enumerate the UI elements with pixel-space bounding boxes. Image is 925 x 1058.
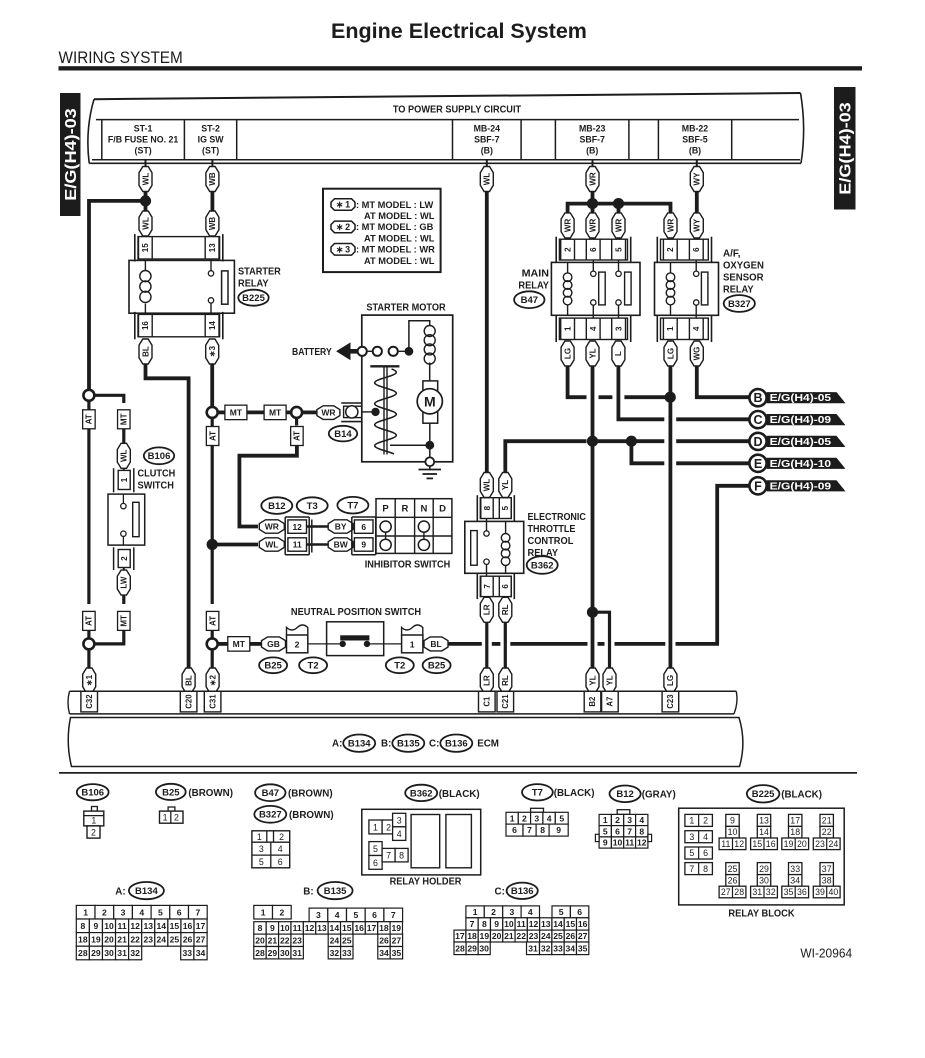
svg-text:11: 11 xyxy=(517,919,526,929)
wire label YL (bus A7) xyxy=(603,668,616,693)
svg-text:WL: WL xyxy=(265,540,278,550)
svg-text:B: B xyxy=(753,391,762,405)
svg-text:7: 7 xyxy=(527,825,532,835)
starter motor field coil xyxy=(424,326,435,337)
inhibitor pin 6 xyxy=(354,520,373,533)
wire label RL (ETC pin6) xyxy=(499,597,512,622)
row B segments with crossing breaks xyxy=(599,395,613,399)
wire label WG (B327 pin4) xyxy=(690,341,703,366)
starter motor armature xyxy=(423,381,438,423)
svg-text:3: 3 xyxy=(614,326,623,331)
svg-text:2: 2 xyxy=(102,907,107,917)
B25 connector icon xyxy=(168,807,175,811)
model label MT box 1 xyxy=(218,410,227,414)
svg-text:23: 23 xyxy=(815,839,825,849)
svg-text:LR: LR xyxy=(483,604,492,615)
grid A B134 xyxy=(76,905,95,919)
wire WY from MB-22 xyxy=(696,160,698,167)
clutch switch pin 1 xyxy=(118,470,130,489)
svg-text:4: 4 xyxy=(703,832,708,842)
svg-text:C20: C20 xyxy=(184,694,193,709)
model label MT (clutch upper) xyxy=(118,410,131,429)
wire AT2 to inhibitor WR pin 12 xyxy=(239,446,297,527)
svg-text:19: 19 xyxy=(392,923,402,933)
svg-text:14: 14 xyxy=(553,919,563,929)
relay holder box xyxy=(362,809,481,875)
svg-text:16: 16 xyxy=(766,839,776,849)
battery arrow xyxy=(336,342,350,360)
connector ref B106 (bottom) xyxy=(77,784,109,800)
neutral switch contacts xyxy=(340,641,346,647)
svg-text:SBF-7: SBF-7 xyxy=(579,135,605,145)
starter relay bottom pin band pins 16 14 xyxy=(138,314,220,336)
svg-text:(BLACK): (BLACK) xyxy=(781,790,822,801)
relay block box xyxy=(679,808,845,905)
connector ref B362 (bottom) xyxy=(405,785,437,801)
svg-text:: MT MODEL : LW: : MT MODEL : LW xyxy=(356,200,434,210)
svg-text:27: 27 xyxy=(392,935,402,945)
svg-text:1: 1 xyxy=(689,816,694,826)
wire LG B327 down to ECM C23 xyxy=(669,366,673,670)
svg-text:12: 12 xyxy=(305,923,315,933)
svg-text:30: 30 xyxy=(104,948,114,958)
svg-text:12: 12 xyxy=(734,839,744,849)
svg-text:TO POWER SUPPLY CIRCUIT: TO POWER SUPPLY CIRCUIT xyxy=(393,105,521,116)
svg-text:B225: B225 xyxy=(752,789,775,800)
svg-text:STARTER: STARTER xyxy=(238,267,282,278)
svg-text:6: 6 xyxy=(615,826,620,836)
svg-text:17: 17 xyxy=(455,931,465,941)
svg-text:20: 20 xyxy=(104,934,114,944)
wire clutch lower to junction xyxy=(94,630,124,644)
wire label *1 xyxy=(83,668,96,693)
wire MT to GB xyxy=(250,642,262,646)
svg-text:5: 5 xyxy=(559,813,564,823)
starter relay contact xyxy=(210,259,212,271)
svg-text:20: 20 xyxy=(255,935,265,945)
svg-text:E/G(H4)-03: E/G(H4)-03 xyxy=(63,108,80,201)
svg-text:(B): (B) xyxy=(689,146,701,156)
wire RL down to C21 xyxy=(504,622,507,670)
main relay top pin band pins 2 6 5 xyxy=(559,239,627,260)
svg-text:(BROWN): (BROWN) xyxy=(188,788,233,799)
relay holder cells 5-8 xyxy=(369,842,382,856)
svg-text:2: 2 xyxy=(703,816,708,826)
right page banner E/G(H4)-03 xyxy=(834,87,856,210)
svg-text:33: 33 xyxy=(342,948,352,958)
wire BL from starter relay to ECM C20 xyxy=(146,364,189,670)
svg-text:6: 6 xyxy=(373,858,378,868)
ground symbol xyxy=(429,466,431,469)
svg-text:14: 14 xyxy=(330,923,340,933)
svg-text:6: 6 xyxy=(177,907,182,917)
svg-text:SBF-5: SBF-5 xyxy=(682,135,708,145)
svg-text:L: L xyxy=(614,351,623,356)
wire label WR (B47 pin6) xyxy=(586,213,599,238)
svg-text:7: 7 xyxy=(483,584,492,589)
junction circle AT/MT upper (clutch branch) xyxy=(83,390,94,401)
svg-text:C31: C31 xyxy=(208,694,217,709)
connector ref B225 (bottom) xyxy=(747,785,780,802)
svg-text:MB-23: MB-23 xyxy=(579,124,606,134)
connector refs B25 T2 (left) xyxy=(259,657,287,673)
ECM pin boxes xyxy=(81,691,98,712)
svg-text:6: 6 xyxy=(577,907,582,917)
svg-text:B47: B47 xyxy=(521,295,538,306)
svg-text:6: 6 xyxy=(278,857,283,867)
svg-text:26: 26 xyxy=(379,935,389,945)
svg-text:4: 4 xyxy=(639,815,644,825)
svg-text:MT: MT xyxy=(120,413,129,425)
svg-text:5: 5 xyxy=(373,844,378,854)
wire WL from MB-24 down to ETC relay xyxy=(486,160,488,167)
svg-text:LR: LR xyxy=(483,675,492,686)
svg-text:1: 1 xyxy=(83,907,88,917)
svg-text:11: 11 xyxy=(118,921,127,931)
svg-text:31: 31 xyxy=(292,948,302,958)
svg-text:WY: WY xyxy=(693,172,702,186)
svg-text:LW: LW xyxy=(120,576,129,588)
svg-text:AT MODEL : WL: AT MODEL : WL xyxy=(364,256,435,266)
svg-text:LG: LG xyxy=(666,675,675,686)
junction dot YL branch xyxy=(587,607,598,618)
svg-text:B12: B12 xyxy=(268,501,285,512)
svg-text:9: 9 xyxy=(361,540,366,550)
svg-text:32: 32 xyxy=(541,943,551,953)
wire label WL (ETC pin8) xyxy=(480,473,493,498)
wire WB from ST-2 to starter relay pin 13 xyxy=(211,160,213,167)
svg-text:M: M xyxy=(424,393,436,409)
relay holder slots xyxy=(411,815,440,868)
model label MT box 2 xyxy=(247,410,265,414)
svg-text:9: 9 xyxy=(730,816,735,826)
A/F relay top pin band pins 2 6 xyxy=(661,239,709,260)
main relay contact 2 xyxy=(618,260,620,271)
svg-text:8: 8 xyxy=(540,825,545,835)
arrow E E/G(H4)-10 xyxy=(767,458,846,469)
junction dot row B at LG B327 xyxy=(665,392,676,403)
svg-text:N: N xyxy=(420,504,427,515)
svg-text:D: D xyxy=(439,504,446,515)
svg-text:29: 29 xyxy=(268,948,278,958)
connector ref B362 xyxy=(527,556,558,574)
svg-text:1: 1 xyxy=(666,326,675,331)
svg-text:8: 8 xyxy=(483,505,492,510)
svg-text:WI-20964: WI-20964 xyxy=(800,947,852,961)
svg-text:C32: C32 xyxy=(85,694,94,709)
svg-text:WL: WL xyxy=(141,217,150,230)
wire label RL (bus) xyxy=(499,668,512,693)
wire label LR (ETC pin7) xyxy=(480,597,493,622)
wire branch from WL junction to clutch switch circuit xyxy=(89,201,146,391)
starter relay B225 body xyxy=(129,260,234,313)
svg-text:WR: WR xyxy=(321,408,335,418)
svg-text:: MT MODEL : WR: : MT MODEL : WR xyxy=(356,245,435,255)
svg-text:A:: A: xyxy=(115,886,125,897)
wire LR down to C1 xyxy=(485,622,488,670)
main relay coil xyxy=(567,262,569,273)
starter motor box xyxy=(362,315,453,462)
svg-text:(B): (B) xyxy=(481,146,493,156)
connector ref B106 xyxy=(144,447,174,464)
svg-text:35: 35 xyxy=(784,887,794,897)
wire label WR (B47 pin5) xyxy=(612,213,625,238)
svg-text:B25: B25 xyxy=(162,787,180,798)
svg-text:RELAY: RELAY xyxy=(238,279,269,290)
svg-text:RELAY HOLDER: RELAY HOLDER xyxy=(390,877,462,888)
note *2 symbol xyxy=(331,221,355,233)
svg-text:∗ 2: ∗ 2 xyxy=(336,222,350,232)
starter motor bottom node xyxy=(429,423,431,457)
svg-text:RL: RL xyxy=(501,675,510,686)
svg-text:B135: B135 xyxy=(324,886,347,897)
note *1 symbol xyxy=(331,199,355,211)
svg-text:(ST): (ST) xyxy=(135,146,152,156)
wire label WR pin 12 xyxy=(259,520,284,533)
svg-text:27: 27 xyxy=(578,931,588,941)
svg-text:21: 21 xyxy=(504,931,514,941)
svg-text:3: 3 xyxy=(121,907,126,917)
svg-text:T7: T7 xyxy=(347,501,358,512)
svg-text:2: 2 xyxy=(295,640,300,650)
svg-text:B362: B362 xyxy=(410,788,433,799)
svg-text:B136: B136 xyxy=(445,739,468,750)
wire label WR (B14) xyxy=(317,406,340,420)
svg-text:∗3: ∗3 xyxy=(208,345,217,357)
inhibitor pin frame right xyxy=(351,517,353,555)
svg-text:13: 13 xyxy=(208,243,217,252)
wire label LR (bus) xyxy=(480,668,493,693)
clutch switch pin 2 xyxy=(118,550,130,568)
clutch switch body B106 xyxy=(108,494,145,545)
wire label L (B47 pin3) xyxy=(612,341,625,366)
svg-text:8: 8 xyxy=(482,919,487,929)
relay holder cells 1-4 xyxy=(369,820,382,834)
svg-text:IG SW: IG SW xyxy=(198,135,225,145)
svg-text:29: 29 xyxy=(91,948,101,958)
svg-text:6: 6 xyxy=(372,910,377,920)
wire label BY pin 6 xyxy=(328,520,353,533)
svg-text:22: 22 xyxy=(280,935,290,945)
starter relay coil xyxy=(144,260,146,270)
junction circle MT row left xyxy=(207,407,218,418)
svg-text:ECM: ECM xyxy=(477,739,499,750)
svg-text:10: 10 xyxy=(728,827,738,837)
inhibitor PRND table xyxy=(376,499,452,554)
svg-text:3: 3 xyxy=(627,815,632,825)
wire BL to F arrow (with breaks at crossings) xyxy=(448,642,482,646)
YL branch to A7 xyxy=(593,612,610,670)
svg-text:5: 5 xyxy=(603,826,608,836)
svg-text:32: 32 xyxy=(330,948,340,958)
svg-text:MT: MT xyxy=(269,407,282,417)
svg-text:4: 4 xyxy=(278,844,283,854)
svg-text:BL: BL xyxy=(141,346,150,357)
svg-text:20: 20 xyxy=(492,931,502,941)
wire YL B47 down xyxy=(591,366,595,670)
svg-text:AT: AT xyxy=(208,616,217,626)
svg-text:∗1: ∗1 xyxy=(85,674,94,686)
svg-text:E/G(H4)-10: E/G(H4)-10 xyxy=(770,459,832,470)
svg-text:13: 13 xyxy=(759,816,769,826)
svg-text:B135: B135 xyxy=(397,739,420,750)
svg-text:24: 24 xyxy=(330,935,340,945)
model label AT (left upper) xyxy=(83,410,96,429)
svg-text:B25: B25 xyxy=(428,661,446,672)
wire YL ETC pin5 up to row D xyxy=(505,441,586,472)
A/F relay bottom pin band pins 1 4 xyxy=(661,318,709,339)
svg-text:B327: B327 xyxy=(259,810,282,821)
svg-text:NEUTRAL POSITION SWITCH: NEUTRAL POSITION SWITCH xyxy=(291,607,421,618)
svg-text:15: 15 xyxy=(342,923,352,933)
svg-text:8: 8 xyxy=(399,851,404,861)
connector ref B47 xyxy=(514,291,544,308)
svg-text:STARTER MOTOR: STARTER MOTOR xyxy=(366,302,446,313)
svg-text:5: 5 xyxy=(559,907,564,917)
svg-text:AT: AT xyxy=(85,414,94,424)
svg-text:1: 1 xyxy=(373,822,378,832)
svg-text:E/G(H4)-09: E/G(H4)-09 xyxy=(770,481,832,492)
svg-text:1: 1 xyxy=(510,813,515,823)
svg-text:B106: B106 xyxy=(81,788,104,799)
model label AT (lower) xyxy=(206,611,219,630)
grid C B136 xyxy=(466,906,484,918)
svg-text:26: 26 xyxy=(728,875,738,885)
wire label LG (B47 pin1) xyxy=(561,341,574,366)
svg-text:5: 5 xyxy=(614,247,623,252)
svg-text:∗2: ∗2 xyxy=(208,674,217,686)
svg-text:(BLACK): (BLACK) xyxy=(439,789,480,800)
svg-text:OXYGEN: OXYGEN xyxy=(723,260,764,271)
branch to arrow E xyxy=(631,441,664,463)
svg-text:24: 24 xyxy=(157,934,167,944)
svg-text:B134: B134 xyxy=(348,739,371,750)
svg-text:2: 2 xyxy=(120,556,129,561)
svg-text:11: 11 xyxy=(293,923,302,933)
svg-text:B:: B: xyxy=(303,886,313,897)
svg-text:16: 16 xyxy=(141,321,150,330)
svg-text:2: 2 xyxy=(491,907,496,917)
svg-text:B362: B362 xyxy=(531,560,554,571)
svg-text:WR: WR xyxy=(666,219,675,233)
A/F relay coil xyxy=(670,262,672,273)
svg-text:4: 4 xyxy=(547,813,552,823)
svg-text:34: 34 xyxy=(790,875,800,885)
wire label *2 xyxy=(206,668,219,693)
wire to *2 xyxy=(211,649,214,671)
svg-text:C23: C23 xyxy=(666,694,675,709)
main relay body B47 xyxy=(551,262,640,315)
svg-text:28: 28 xyxy=(734,887,744,897)
wire MT junction down (AT path) xyxy=(211,418,214,604)
arrow B E/G(H4)-05 xyxy=(767,392,846,403)
wire label WY (B327 pin6) xyxy=(690,213,703,238)
svg-text:RL: RL xyxy=(501,604,510,615)
battery contact circles xyxy=(358,347,367,356)
svg-text:∗ 1: ∗ 1 xyxy=(336,200,350,210)
svg-text:THROTTLE: THROTTLE xyxy=(528,524,576,535)
svg-text:AT MODEL : WL: AT MODEL : WL xyxy=(364,211,435,221)
neutral switch pin 2 with breakoff xyxy=(287,625,308,636)
svg-text:9: 9 xyxy=(603,838,608,848)
svg-text:32: 32 xyxy=(130,948,140,958)
svg-text:16: 16 xyxy=(183,921,193,931)
svg-text:27: 27 xyxy=(196,934,206,944)
svg-text:8: 8 xyxy=(639,826,644,836)
svg-text:MT: MT xyxy=(120,615,129,627)
svg-text:3: 3 xyxy=(689,832,694,842)
svg-text:8: 8 xyxy=(703,864,708,874)
svg-text:7: 7 xyxy=(689,864,694,874)
wire label WR (B47 pin2) xyxy=(561,213,574,238)
svg-text:2: 2 xyxy=(522,813,527,823)
svg-text:4: 4 xyxy=(139,907,144,917)
wire label YL (ETC pin5) xyxy=(499,473,512,498)
svg-text:MAIN: MAIN xyxy=(522,268,549,279)
svg-text:14: 14 xyxy=(759,827,769,837)
svg-text:7: 7 xyxy=(195,907,200,917)
svg-text:5: 5 xyxy=(259,857,264,867)
junction circle MT row right xyxy=(286,410,292,414)
T7 connector icon xyxy=(531,808,544,812)
svg-text:9: 9 xyxy=(494,919,499,929)
svg-text:6: 6 xyxy=(361,522,366,532)
svg-text:33: 33 xyxy=(183,948,193,958)
svg-text:9: 9 xyxy=(556,825,561,835)
svg-text:25: 25 xyxy=(553,931,563,941)
main relay contact 1 xyxy=(592,260,594,271)
B12 connector icon xyxy=(617,810,630,815)
svg-text:18: 18 xyxy=(78,934,88,944)
arrow C E/G(H4)-09 xyxy=(767,414,846,425)
svg-text:2: 2 xyxy=(279,907,284,917)
svg-text:11: 11 xyxy=(625,838,634,848)
svg-text:WL: WL xyxy=(141,173,150,186)
WR distribution bus xyxy=(568,204,671,214)
svg-text:BL: BL xyxy=(430,639,441,649)
svg-text:10: 10 xyxy=(104,921,114,931)
svg-text:R: R xyxy=(401,504,408,515)
svg-text:13: 13 xyxy=(143,921,153,931)
svg-text:28: 28 xyxy=(455,943,465,953)
svg-text:2: 2 xyxy=(386,822,391,832)
wire B14 to starter motor xyxy=(362,411,376,413)
svg-text:6: 6 xyxy=(512,825,517,835)
svg-text:(ST): (ST) xyxy=(202,146,219,156)
svg-text:5: 5 xyxy=(501,505,510,510)
svg-text:BY: BY xyxy=(335,522,347,532)
svg-text:4: 4 xyxy=(589,326,598,331)
A/F relay body B327 xyxy=(655,262,719,315)
svg-text:C21: C21 xyxy=(501,694,510,709)
wire WG B327 to arrow B xyxy=(697,366,750,397)
svg-text:YL: YL xyxy=(501,480,510,490)
svg-text:10: 10 xyxy=(280,923,290,933)
svg-text:5: 5 xyxy=(158,907,163,917)
banner cell row xyxy=(96,119,799,121)
connector ref T7 (bottom) xyxy=(522,784,553,800)
svg-text:17: 17 xyxy=(790,816,800,826)
inhibitor pin frame left xyxy=(284,517,286,555)
svg-text:SWITCH: SWITCH xyxy=(138,481,174,492)
left page banner E/G(H4)-03 xyxy=(60,93,81,216)
svg-text:BW: BW xyxy=(334,540,349,550)
svg-text:33: 33 xyxy=(790,864,800,874)
svg-text:YL: YL xyxy=(605,675,614,685)
inhibitor pin 11 xyxy=(288,538,307,551)
wire label WB (upper) xyxy=(206,167,219,192)
svg-text:9: 9 xyxy=(270,923,275,933)
